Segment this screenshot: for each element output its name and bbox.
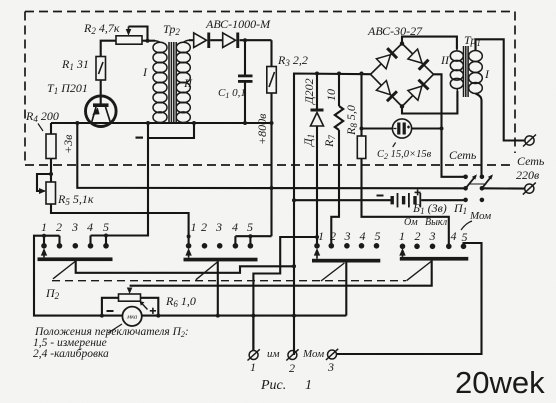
bridge ABC-30-27 arms — [371, 44, 434, 107]
bank4 contact 5 — [461, 244, 467, 250]
wire: bridge bottom to Tp1 secondary II bottom — [402, 91, 457, 114]
junction common rail (294,266.3) — [292, 264, 296, 268]
wire: bank1 bracket12 — [34, 236, 346, 316]
winding I (right) — [469, 51, 483, 62]
wire: Tp1 primary bottom to switch — [476, 94, 482, 177]
wire: terminal1 riser — [252, 316, 254, 351]
bridge diode bottom-right — [408, 79, 430, 101]
transformer Tp1 — [450, 46, 482, 97]
wire: bridge right to switch — [434, 74, 466, 177]
bank2 contacts — [186, 234, 253, 248]
bank1 wiper bar — [38, 257, 113, 261]
wire: bank2 bracket45 — [235, 235, 271, 237]
wire: bank1 wiper riser and run to common rail — [76, 261, 294, 273]
bank3 wiper arrow — [316, 250, 318, 259]
wire: R2 right end to junction to Tp2 primary top — [142, 40, 155, 42]
C2 label leader — [393, 143, 396, 148]
mechanical linkage dashed line — [52, 280, 406, 282]
resistor R8 — [357, 136, 366, 159]
bank1 wiper arrow — [43, 250, 45, 257]
bank3 contact 4 — [359, 243, 365, 249]
meter minus label — [107, 310, 114, 312]
bank position numbers — [41, 220, 468, 375]
potentiometer R5 body — [46, 182, 56, 204]
bank2 contact 4 — [233, 243, 239, 249]
diode VD b of ABC-1000-M — [223, 33, 240, 49]
linkage diagonal bank4 — [407, 261, 432, 281]
wire: battery minus — [294, 199, 391, 201]
wire: R2 wiper to junction — [129, 27, 148, 41]
wire: R5 wiper arm — [37, 174, 51, 191]
terminal 1 — [248, 349, 260, 360]
bank3 contact 2 — [329, 243, 335, 249]
wire: riser x=148 from rail to bank1 bracket45 — [91, 123, 149, 236]
diode VD a of ABC-1000-M — [194, 33, 211, 49]
bank4 contact 3 — [430, 244, 436, 250]
transistor T1 — [86, 96, 117, 127]
bank4 contact 1 — [400, 244, 406, 250]
minus mark near Tp2 — [136, 137, 144, 139]
wire: meter loop — [102, 298, 119, 316]
junction bank2 contact5 bracket (250.4,236.2) — [248, 234, 252, 238]
junction R3 rail (271.5,123) — [270, 121, 274, 125]
bank3 contact 5 — [374, 243, 380, 249]
bank1 contact 4 — [88, 243, 94, 249]
wire: battery plus to switch — [421, 199, 465, 201]
meter leader line — [108, 324, 122, 333]
wire: R5 bottom to bank2 contact1 — [51, 204, 189, 246]
junction terminal1 riser (253.4,315.6) — [251, 314, 255, 318]
bank2 wiper bar — [184, 258, 258, 262]
wire: R4/R5 column x=51 — [50, 123, 52, 182]
transformer Tp2 — [153, 40, 194, 123]
wire: R6 wiper run to bank4 wiper — [130, 261, 432, 286]
R6 wiper arrowhead — [127, 288, 133, 295]
wire: bank1 contact stubs — [43, 236, 45, 246]
junction D1 top (317,73.5) — [315, 72, 319, 76]
wire: switch mid-right to lower mains terminal — [482, 187, 525, 189]
winding II (left) — [450, 51, 463, 61]
wire: C1 branch — [244, 40, 246, 74]
bridge diode top-left — [376, 47, 398, 69]
junction D1 top (317,237) — [315, 235, 319, 239]
bridge diode top-right — [408, 49, 430, 71]
wire: Tp1 primary top to mains terminal — [476, 39, 525, 140]
bank3 wiper bar — [312, 259, 380, 263]
junction common rail (294,315.6) — [292, 314, 296, 318]
junction bank1 contact1 bracket (44,235.7) — [42, 234, 46, 238]
diode D1 D202 — [311, 109, 324, 127]
bank3 contacts — [314, 243, 379, 249]
junction R8 top (361.5,128.5) — [360, 127, 364, 131]
wire: bank3 wiper riser = main wire end — [345, 262, 347, 315]
wire: oscillator bottom rail y=123 — [51, 122, 272, 124]
wire: R7 column x=339 — [338, 74, 340, 107]
junction R8 top (361.5,73.5) — [360, 72, 364, 76]
bank2 contact 5 — [248, 243, 254, 249]
capacitor C2 electrolytic — [392, 119, 411, 138]
rotated labels — [61, 78, 359, 154]
bank1 contacts — [41, 243, 109, 249]
wire: riser x=77 to line A — [77, 123, 465, 188]
junction R2 wiper / Tp2 primary top (147.5,40.7) — [146, 39, 150, 43]
MAIN WIRES GROUP — [34, 27, 525, 356]
wire: bank4 contact5 to terminal 3 — [337, 243, 482, 354]
bank2 contact 3 — [217, 243, 223, 249]
bank2 contact 2 — [202, 243, 208, 249]
wire: secondary bottom detour — [148, 123, 194, 138]
terminal 3 — [326, 349, 338, 360]
junction meter loop left (101.9,315.6) — [100, 314, 104, 318]
wire: bridge top to Tp1 II top — [402, 37, 457, 49]
junction bridge vertex (402,106.5) — [400, 104, 404, 108]
wire: R3 +800v rail x=271.5 — [270, 40, 272, 66]
wire: D1 column x=317 — [316, 74, 318, 109]
bank4 wiper bar — [400, 257, 469, 261]
wire: R1 to transistor base — [100, 80, 102, 104]
dashed enclosure box — [25, 12, 515, 166]
bank1 contact 2 — [57, 243, 63, 249]
junction R5 wiper (51,174) — [49, 172, 53, 176]
bank2 contact 1 — [186, 243, 192, 249]
junction bank2 wiper / main wire (217.8,315.6) — [216, 314, 220, 318]
resistor R3 — [267, 67, 277, 94]
junction emitter rail / riser (77.3,123) — [75, 121, 79, 125]
mains terminal lower — [523, 183, 536, 195]
terminal 2 — [286, 349, 298, 360]
paper texture — [0, 0, 1, 1]
wire: bank3 contact1 feed — [253, 237, 317, 351]
caption note — [33, 326, 189, 360]
wire: R2 left end down to R1 — [101, 41, 116, 57]
wire: bank2 wiper riser — [217, 261, 219, 315]
junction C1 (245,123) — [243, 121, 247, 125]
junction meter loop right (158.3,315.6) — [156, 314, 160, 318]
bank3 contact 3 — [344, 243, 350, 249]
bank4 contact 2 — [414, 244, 420, 250]
wire: diode output rail y=40.2 — [189, 39, 194, 41]
core — [168, 42, 170, 123]
junction bridge vertex (402,43.5) — [400, 41, 404, 45]
junction common rail (294,200.2) — [292, 198, 296, 202]
R6 small side arrow — [141, 303, 148, 310]
mains terminal upper — [523, 135, 536, 147]
linkage diagonal bank2 — [196, 262, 218, 280]
capacitor C1 — [238, 75, 253, 83]
wire: common rail x=294 — [294, 74, 371, 356]
junction rail / bank1 riser (148,123) — [146, 121, 150, 125]
junction C1 (245,40.2) — [243, 38, 247, 42]
microammeter — [122, 307, 141, 326]
bank4 wiper arrow — [402, 250, 404, 257]
bridge diode bottom-left — [376, 81, 398, 103]
R4 label leader — [38, 124, 43, 132]
battery B1 cells — [377, 189, 422, 207]
resistor R4 — [46, 134, 56, 159]
wire: C2 row y=128.5 — [362, 127, 393, 129]
switch P1 levers — [466, 174, 493, 188]
R5 wiper arrowhead — [39, 188, 46, 194]
winding II (right) — [176, 42, 190, 53]
junction R7 top (339,73.5) — [337, 72, 341, 76]
R2 wiper arrowhead — [126, 29, 132, 36]
junction R3 rail (271.5,188) — [270, 186, 274, 190]
linkage diagonal bank3 — [321, 263, 344, 281]
bank3 contact 1 — [314, 243, 320, 249]
resistor R7 zigzag — [335, 106, 343, 130]
wire: R8 column x=361.5 — [360, 74, 362, 137]
junction bank1 contact5 bracket (106,235.5) — [104, 234, 108, 238]
wire: bank2 stubs — [234, 236, 236, 246]
bank1 contact 1 — [41, 243, 47, 249]
junction Tp2 secondary bottom (194,123) — [192, 121, 196, 125]
junction C2 right (441.5,128.5) — [440, 127, 444, 131]
bank1 contact 5 — [103, 243, 109, 249]
bank4 contacts — [400, 244, 467, 250]
winding I (left) — [153, 42, 167, 53]
switch P1 contacts — [463, 175, 484, 203]
bank2 wiper arrow — [188, 250, 190, 258]
potentiometer R2 body — [116, 36, 142, 44]
Mom leader — [461, 221, 472, 230]
meter plus label — [150, 308, 156, 314]
bank4 contact 4 — [446, 244, 452, 250]
bank1 contact 3 — [73, 243, 79, 249]
linkage diagonal bank1 — [53, 261, 76, 279]
potentiometer R6 body — [119, 294, 141, 301]
resistor R1 — [96, 57, 106, 81]
